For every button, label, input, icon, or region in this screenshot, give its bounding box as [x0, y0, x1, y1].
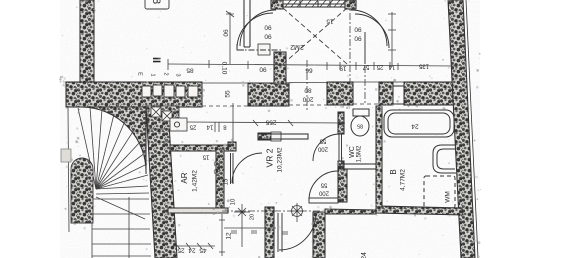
fixtures — [351, 109, 456, 208]
dim vertical at AR door — [232, 103, 234, 142]
chimney flue boxes in band — [142, 85, 198, 97]
wall face lines across band openings — [202, 82, 404, 83]
wall: AR bottom wall — [168, 208, 228, 213]
equals tick marks — [231, 231, 288, 234]
door leaf: lobby lower door — [309, 198, 338, 203]
dash-dot centre lines — [222, 0, 365, 211]
wall: stairwell vertical wall — [146, 106, 177, 258]
door arc: balcony double door right — [351, 10, 387, 46]
stair stringer lines — [92, 190, 129, 258]
level mark A — [234, 204, 250, 247]
washbasin — [433, 145, 456, 173]
dim line left vertical — [229, 12, 231, 64]
wall: main horizontal band segment 5 — [404, 82, 461, 105]
wall: AR door jamb — [228, 142, 236, 151]
door arc: top-left room door — [237, 13, 273, 49]
wall: WC bottom wall — [340, 164, 382, 169]
dim line long chain — [168, 64, 457, 66]
door leaf: VR2 entry door — [231, 153, 234, 184]
chimney cross dashed X — [283, 8, 347, 64]
door arc: lobby lower door — [309, 171, 338, 200]
stair winder fan lines — [78, 108, 96, 189]
wall: curved stair corner wall — [82, 107, 146, 174]
door leaf: big bottom door — [278, 213, 282, 252]
door arc: balcony double door left — [240, 10, 276, 46]
bathtub — [384, 110, 454, 137]
scan noise speckles — [59, 0, 481, 258]
dim line bottom vertical — [219, 214, 225, 256]
wall: top-centre wall with piers — [271, 0, 356, 7]
stair straight steps — [92, 198, 149, 200]
wall: mid pier near VR2 top — [258, 133, 272, 140]
door jamb box right of pier — [271, 132, 281, 141]
door leaf: top-left room door — [237, 44, 244, 50]
wall: WC-bath divider wall — [376, 106, 382, 207]
door arc: VR2 entry door — [232, 153, 262, 183]
level mark B circle — [290, 203, 304, 222]
wall: right outer face line — [466, 0, 478, 258]
wall: bath bottom wall — [376, 206, 463, 215]
dim chain ticks right — [340, 62, 456, 70]
wall: bottom-right corridor wall — [325, 209, 376, 214]
wall: pier below niche — [274, 52, 286, 84]
wall: main horizontal band segment 2 — [248, 83, 289, 106]
chimney block below band — [148, 106, 179, 129]
wall: AR right wall — [216, 149, 224, 209]
door arc: top-right room door — [355, 14, 389, 48]
dim line corridor — [187, 122, 345, 123]
paper noise overlay — [60, 0, 480, 258]
stair newel pillar — [71, 158, 93, 223]
window band hatch — [285, 0, 346, 7]
wall: stub wall below corridor — [265, 207, 274, 258]
staircase — [68, 107, 151, 258]
toilet — [351, 116, 369, 136]
wall: bottom vertical wall between rooms — [313, 212, 325, 258]
wall: lobby right wall below WC — [338, 169, 347, 202]
dim line bottom left — [172, 245, 215, 247]
wall: WC left wall lower — [338, 161, 344, 169]
wall: main horizontal band segment 1 — [66, 82, 202, 107]
wall: main horizontal band pier segment 4 — [379, 82, 393, 105]
wall: main horizontal band segment 3 — [327, 82, 353, 105]
dim line right vertical — [388, 12, 396, 67]
wall: niche bottom line — [244, 46, 250, 48]
wall: top-centre right pier — [345, 0, 356, 9]
stair walking line — [96, 197, 145, 219]
wall: stair entry jamb block — [61, 149, 71, 162]
door leaf: lobby upper door — [339, 134, 342, 161]
door arc: lobby upper door — [313, 134, 340, 161]
dimension lines — [168, 11, 457, 256]
flue box with X 1 — [151, 107, 187, 131]
wall: AR top wall — [170, 145, 228, 151]
door jamb box at niche end — [258, 44, 270, 55]
number box 8 at top — [145, 0, 169, 9]
wall: top-centre left pier — [271, 0, 283, 9]
window midline and mullions — [283, 1, 345, 7]
door arc: big bottom door — [279, 213, 316, 250]
wall: right outer wall — [448, 0, 475, 258]
wall: WC left wall upper — [338, 112, 344, 134]
flue box with pipe — [170, 118, 187, 131]
washing machine dashed — [424, 176, 455, 208]
wall: mid wall segment right of VR2 door — [258, 134, 308, 139]
stair outer wall line — [68, 107, 69, 232]
dashed sill lines across wall openings — [202, 104, 404, 106]
door leaf: top-right room door — [364, 32, 366, 64]
door frame: bath door in band gap — [393, 86, 404, 104]
wall: niche vertical wall — [244, 0, 250, 47]
dim line below corridor — [224, 227, 276, 229]
wall: left outer wall — [80, 0, 94, 88]
